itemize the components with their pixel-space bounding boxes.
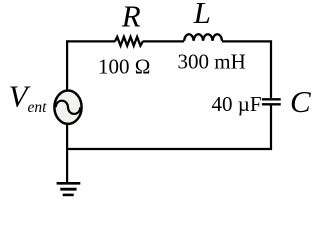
wire capacitor to bottom-right corner and bottom wire (66, 104, 271, 149)
capacitor C1 bottom plate (262, 103, 281, 105)
wire top-left horizontal (66, 40, 115, 42)
svg-text:40 µF: 40 µF (212, 92, 262, 116)
svg-text:100 Ω: 100 Ω (98, 55, 150, 79)
wire inductor to top-right corner (222, 41, 271, 98)
capacitor C1 top plate (262, 98, 281, 100)
wire between resistor and inductor (143, 40, 185, 42)
svg-text:C: C (290, 84, 311, 119)
wire left vertical bottom (source to ground stem) (66, 124, 68, 183)
wire left vertical top (to source) (66, 40, 68, 90)
ground top bar (57, 182, 81, 185)
node junction bottom-left (66, 148, 68, 150)
voltage source U1 ellipse (54, 91, 81, 124)
ground middle bar (60, 188, 76, 191)
inductor L1 humps (184, 34, 222, 41)
svg-text:L: L (193, 0, 211, 30)
svg-text:Vent: Vent (9, 78, 48, 116)
ground bottom bar (63, 194, 74, 197)
resistor R1 zigzag (115, 37, 143, 46)
voltage source sine wave (56, 101, 81, 114)
svg-text:R: R (121, 0, 141, 34)
svg-text:300 mH: 300 mH (178, 50, 246, 74)
